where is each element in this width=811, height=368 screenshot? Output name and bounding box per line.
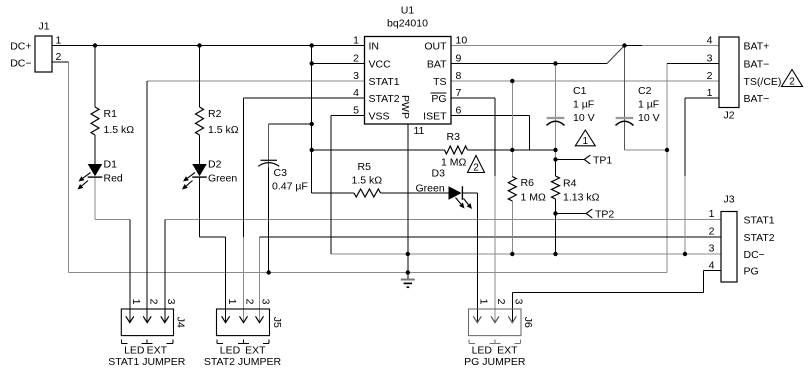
svg-text:1: 1 bbox=[353, 35, 359, 47]
svg-text:1: 1 bbox=[56, 35, 62, 47]
svg-text:1.13 kΩ: 1.13 kΩ bbox=[563, 192, 600, 204]
svg-text:R1: R1 bbox=[104, 108, 118, 120]
svg-text:J6: J6 bbox=[522, 317, 534, 328]
svg-text:STAT1: STAT1 bbox=[369, 76, 400, 88]
svg-text:TP2: TP2 bbox=[595, 209, 614, 221]
svg-text:5: 5 bbox=[353, 105, 359, 117]
svg-text:11: 11 bbox=[414, 125, 425, 137]
svg-text:9: 9 bbox=[456, 53, 462, 65]
svg-text:R3: R3 bbox=[447, 131, 461, 143]
svg-text:EXT: EXT bbox=[245, 345, 266, 357]
svg-text:D1: D1 bbox=[104, 159, 118, 171]
svg-text:LED: LED bbox=[472, 345, 493, 357]
svg-text:1: 1 bbox=[226, 299, 238, 305]
svg-text:10: 10 bbox=[456, 35, 468, 47]
svg-text:J5: J5 bbox=[271, 317, 283, 328]
svg-text:BAT−: BAT− bbox=[744, 59, 770, 71]
svg-text:1: 1 bbox=[583, 136, 589, 147]
svg-text:1 µF: 1 µF bbox=[638, 99, 659, 111]
svg-text:TS: TS bbox=[433, 76, 446, 88]
svg-text:PG JUMPER: PG JUMPER bbox=[464, 356, 526, 368]
svg-text:PG: PG bbox=[744, 266, 759, 278]
svg-text:C2: C2 bbox=[638, 85, 652, 97]
svg-text:4: 4 bbox=[709, 260, 715, 272]
svg-text:PWP: PWP bbox=[399, 95, 411, 119]
svg-text:3: 3 bbox=[165, 299, 177, 305]
svg-text:VSS: VSS bbox=[369, 111, 390, 123]
svg-text:D3: D3 bbox=[432, 168, 446, 180]
svg-text:DC+: DC+ bbox=[10, 41, 31, 53]
svg-text:3: 3 bbox=[707, 53, 713, 65]
svg-text:BAT+: BAT+ bbox=[744, 41, 770, 53]
svg-text:TS(/CE): TS(/CE) bbox=[744, 76, 782, 88]
svg-text:2: 2 bbox=[789, 77, 795, 88]
svg-text:8: 8 bbox=[456, 70, 462, 82]
svg-text:D2: D2 bbox=[208, 159, 222, 171]
svg-text:2: 2 bbox=[495, 299, 507, 305]
svg-text:OUT: OUT bbox=[424, 41, 447, 53]
svg-text:10 V: 10 V bbox=[573, 112, 595, 124]
svg-text:LED: LED bbox=[220, 345, 241, 357]
svg-text:7: 7 bbox=[456, 87, 462, 99]
svg-text:2: 2 bbox=[473, 163, 479, 174]
svg-text:2: 2 bbox=[244, 299, 256, 305]
svg-text:R6: R6 bbox=[521, 177, 535, 189]
svg-text:2: 2 bbox=[147, 299, 159, 305]
svg-text:4: 4 bbox=[353, 87, 359, 99]
svg-text:Red: Red bbox=[104, 173, 123, 185]
svg-text:STAT2 JUMPER: STAT2 JUMPER bbox=[204, 356, 282, 368]
svg-text:1.5 kΩ: 1.5 kΩ bbox=[104, 124, 135, 136]
svg-text:2: 2 bbox=[709, 226, 715, 238]
svg-text:EXT: EXT bbox=[147, 345, 168, 357]
svg-text:3: 3 bbox=[260, 299, 272, 305]
svg-text:BAT: BAT bbox=[427, 59, 447, 71]
svg-text:1.5 kΩ: 1.5 kΩ bbox=[208, 124, 239, 136]
svg-text:Green: Green bbox=[208, 173, 237, 185]
svg-text:TP1: TP1 bbox=[593, 155, 612, 167]
svg-text:C1: C1 bbox=[573, 85, 587, 97]
svg-text:R2: R2 bbox=[208, 108, 222, 120]
svg-text:U1: U1 bbox=[401, 5, 415, 17]
svg-text:DC−: DC− bbox=[10, 58, 31, 70]
svg-text:3: 3 bbox=[353, 70, 359, 82]
svg-text:1 µF: 1 µF bbox=[573, 99, 594, 111]
svg-text:1: 1 bbox=[130, 299, 142, 305]
svg-text:3: 3 bbox=[709, 243, 715, 255]
svg-text:R5: R5 bbox=[358, 161, 372, 173]
svg-text:2: 2 bbox=[56, 51, 62, 63]
svg-text:J1: J1 bbox=[38, 21, 49, 33]
svg-text:DC−: DC− bbox=[744, 249, 765, 261]
svg-text:STAT2: STAT2 bbox=[369, 93, 400, 105]
svg-text:2: 2 bbox=[707, 70, 713, 82]
svg-text:STAT1: STAT1 bbox=[744, 215, 775, 227]
svg-text:Green: Green bbox=[416, 183, 445, 195]
svg-text:IN: IN bbox=[369, 41, 380, 53]
svg-text:10 V: 10 V bbox=[638, 112, 660, 124]
svg-text:bq24010: bq24010 bbox=[387, 18, 428, 30]
svg-text:EXT: EXT bbox=[497, 345, 518, 357]
svg-text:ISET: ISET bbox=[423, 111, 447, 123]
svg-text:3: 3 bbox=[513, 299, 525, 305]
svg-text:STAT1 JUMPER: STAT1 JUMPER bbox=[108, 356, 186, 368]
svg-text:6: 6 bbox=[456, 105, 462, 117]
svg-text:PG: PG bbox=[431, 93, 446, 105]
svg-text:0.47 µF: 0.47 µF bbox=[272, 181, 308, 193]
svg-text:R4: R4 bbox=[563, 178, 577, 190]
svg-text:BAT−: BAT− bbox=[744, 93, 770, 105]
svg-text:2: 2 bbox=[353, 53, 359, 65]
svg-text:1: 1 bbox=[478, 299, 490, 305]
svg-text:4: 4 bbox=[707, 35, 713, 47]
svg-text:J4: J4 bbox=[175, 317, 187, 328]
svg-text:C3: C3 bbox=[274, 167, 288, 179]
svg-text:1: 1 bbox=[707, 87, 713, 99]
svg-text:1 MΩ: 1 MΩ bbox=[521, 192, 547, 204]
svg-text:LED: LED bbox=[124, 345, 145, 357]
svg-text:1.5 kΩ: 1.5 kΩ bbox=[352, 175, 383, 187]
svg-text:J2: J2 bbox=[723, 110, 734, 122]
svg-text:1: 1 bbox=[709, 208, 715, 220]
svg-text:VCC: VCC bbox=[369, 59, 392, 71]
svg-text:J3: J3 bbox=[723, 194, 734, 206]
svg-text:STAT2: STAT2 bbox=[744, 232, 775, 244]
